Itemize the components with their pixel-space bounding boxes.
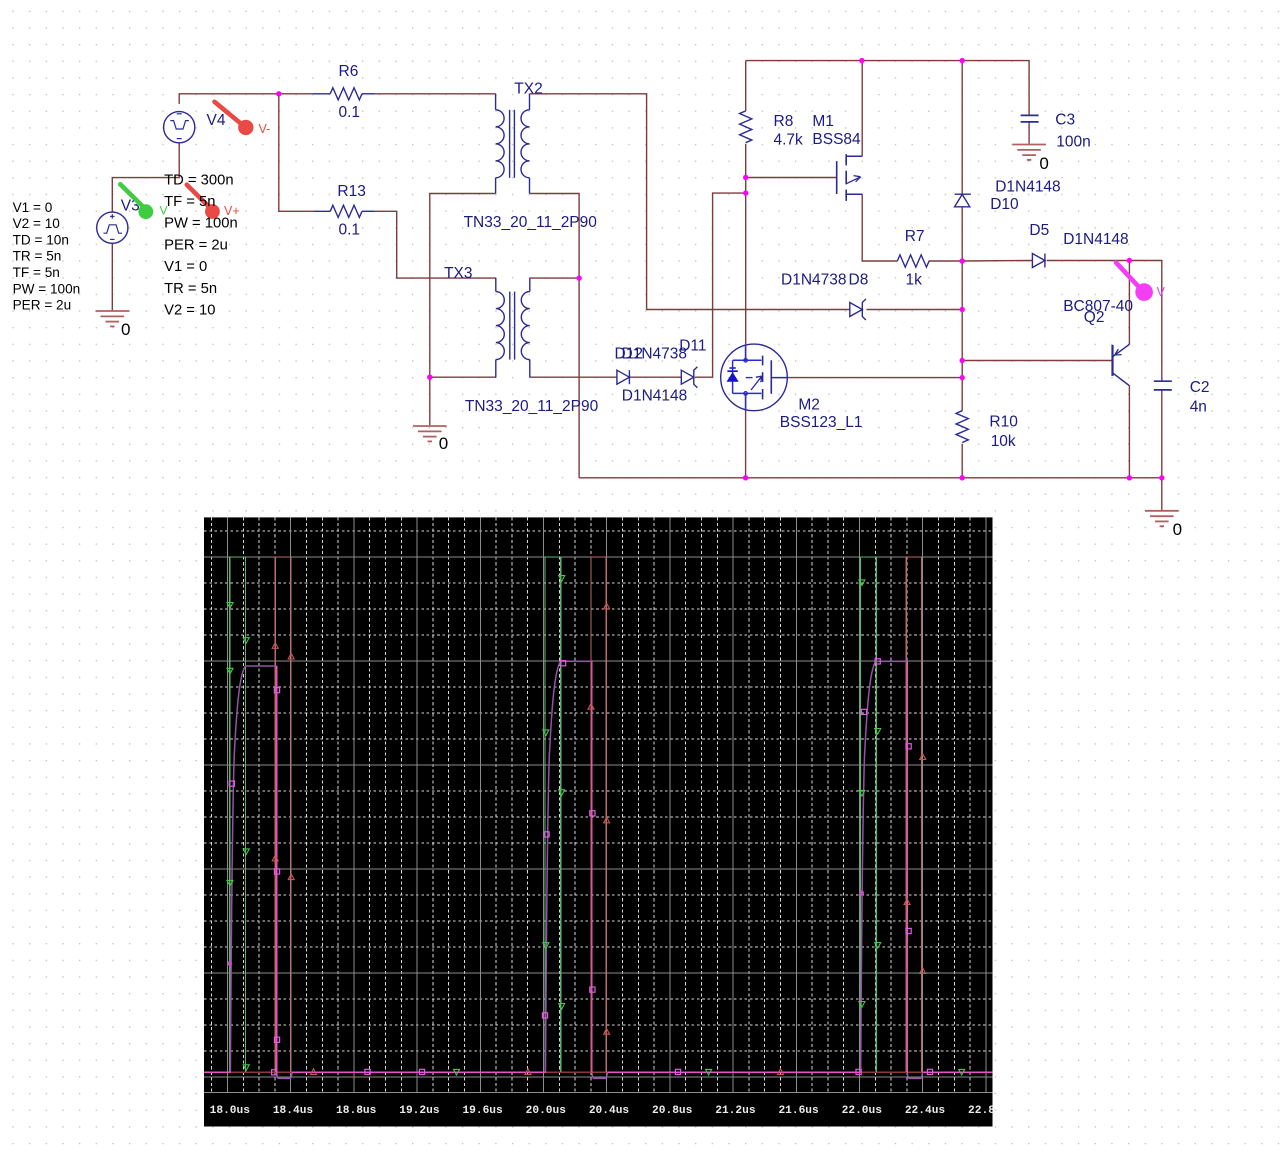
- svg-text:20.4us: 20.4us: [589, 1105, 630, 1117]
- trace V(out) magenta baseline segments: [204, 1071, 230, 1073]
- svg-text:D1N4148: D1N4148: [1063, 231, 1129, 248]
- wire: Q2 emitter up to node: [1128, 261, 1130, 345]
- svg-text:V1 = 0: V1 = 0: [164, 259, 207, 275]
- wire: bottom rail: [579, 477, 1162, 479]
- wire: V3 to ground: [111, 243, 113, 310]
- wire: R10 bottom to rail: [961, 444, 963, 478]
- svg-text:R8: R8: [774, 113, 794, 130]
- wire: M1 drain down to R7: [862, 194, 897, 261]
- probe V+ (red): [187, 185, 208, 206]
- M2 body diode: [727, 373, 737, 381]
- svg-text:100n: 100n: [1056, 133, 1090, 150]
- wire: R8 vertical leads: [745, 61, 747, 111]
- wire: M1 source up to rail: [861, 61, 863, 157]
- svg-text:PER = 2u: PER = 2u: [13, 298, 72, 313]
- plot major grid: [204, 517, 993, 1092]
- svg-text:C2: C2: [1190, 379, 1210, 396]
- svg-text:V-: V-: [259, 122, 271, 136]
- svg-text:D10: D10: [990, 196, 1019, 213]
- svg-text:D8: D8: [849, 271, 869, 288]
- M2 channel and gate: [762, 356, 764, 366]
- svg-text:20.0us: 20.0us: [526, 1105, 567, 1117]
- junction nodes: [276, 91, 281, 96]
- wire: D10 anode down through nodes to R10: [961, 207, 963, 411]
- svg-text:Q2: Q2: [1084, 309, 1105, 326]
- diode D12 D1N4148: [617, 370, 630, 384]
- svg-text:0: 0: [439, 434, 448, 453]
- ground 0 under V3: [96, 310, 130, 312]
- ground 0 under C3: [1012, 144, 1046, 146]
- capacitor C3: [1021, 114, 1039, 116]
- wire: D12 cathode to D11 anode: [629, 376, 681, 378]
- svg-text:0.1: 0.1: [339, 104, 361, 121]
- svg-text:V4: V4: [207, 112, 226, 129]
- wire: junction down to R13: [279, 94, 314, 212]
- mosfet M2 BSS123_L1: [721, 344, 788, 411]
- zener diode D8: [850, 303, 863, 317]
- wire: junction to R6: [279, 93, 313, 95]
- diode D10 vertical: [955, 193, 971, 195]
- wire: TX3 right pin to vertical junction: [530, 277, 579, 279]
- trace V(V4) red pulses: [275, 557, 291, 1072]
- voltage source V3: [97, 212, 128, 243]
- svg-text:21.2us: 21.2us: [715, 1105, 756, 1117]
- svg-text:TN33_20_11_2P90: TN33_20_11_2P90: [465, 398, 599, 415]
- transformer TX2: [495, 94, 497, 110]
- svg-text:D11: D11: [679, 337, 706, 354]
- svg-text:20.8us: 20.8us: [652, 1105, 693, 1117]
- svg-text:18.8us: 18.8us: [336, 1105, 377, 1117]
- wire: node to D5 anode: [962, 260, 1032, 263]
- ground 0 bottom right: [1145, 510, 1179, 512]
- svg-text:19.2us: 19.2us: [399, 1105, 440, 1117]
- resistor R6: [313, 93, 331, 95]
- svg-text:C3: C3: [1055, 112, 1075, 129]
- transformer TX3: [495, 278, 497, 292]
- plot minor grid vertical: [212, 517, 970, 1092]
- svg-text:1k: 1k: [906, 271, 923, 288]
- svg-text:V1 = 0: V1 = 0: [13, 200, 53, 215]
- svg-text:V: V: [1157, 285, 1166, 299]
- svg-text:0.1: 0.1: [339, 222, 361, 239]
- wire: TX2 bottom-right long vertical to bottom rail: [530, 194, 580, 478]
- svg-text:D1N4738: D1N4738: [781, 271, 847, 288]
- svg-text:10k: 10k: [991, 433, 1016, 450]
- svg-text:V2 = 10: V2 = 10: [13, 216, 61, 231]
- svg-text:0: 0: [1039, 154, 1048, 173]
- svg-text:R10: R10: [989, 414, 1018, 431]
- svg-text:R7: R7: [905, 228, 925, 245]
- wire: R13 to TX3 left pin: [375, 211, 496, 278]
- svg-text:D1N4148: D1N4148: [622, 387, 688, 404]
- resistor R7: [897, 255, 929, 267]
- svg-text:PW = 100n: PW = 100n: [13, 281, 81, 296]
- resistor R8: [740, 111, 752, 143]
- svg-text:TX3: TX3: [444, 265, 472, 282]
- wire: TX2 right pin to top rail right: [530, 94, 850, 310]
- svg-text:M1: M1: [812, 113, 834, 130]
- svg-text:BSS123_L1: BSS123_L1: [780, 414, 863, 431]
- wire: V4 top to junction: [179, 94, 279, 104]
- transistor Q2 BC807-40: [1111, 345, 1113, 376]
- trace V(V3) green pulses: [230, 557, 246, 1072]
- svg-text:TD = 300n: TD = 300n: [164, 172, 234, 188]
- trace V(out) magenta fall edge: [276, 666, 278, 1073]
- capacitor C2: [1154, 380, 1172, 382]
- wire: TX3 bottom-right to diode D12: [530, 376, 617, 378]
- svg-text:M2: M2: [798, 397, 820, 414]
- svg-text:TR = 5n: TR = 5n: [13, 249, 62, 264]
- wire: TX2 bottom-left down to ground node: [430, 194, 496, 426]
- wire: R6 to TX2 left pin: [375, 93, 496, 95]
- trace V4 baseline (dark red): [204, 1071, 993, 1073]
- svg-text:18.4us: 18.4us: [273, 1105, 314, 1117]
- wire: M2 drain vertical: [745, 345, 747, 360]
- probe V (green) on V3: [120, 184, 142, 205]
- svg-text:TF = 5n: TF = 5n: [13, 265, 60, 280]
- voltage source V4: [164, 112, 195, 143]
- ground 0 under TX windings: [413, 425, 447, 427]
- svg-text:22.0us: 22.0us: [842, 1105, 883, 1117]
- wire: D10 vertical from rail: [961, 61, 963, 195]
- wire: Q2 collector down to rail: [1128, 386, 1130, 478]
- zener diode D11: [681, 370, 694, 384]
- wire: node to Q2 base: [962, 360, 1112, 362]
- svg-text:4.7k: 4.7k: [774, 132, 804, 149]
- svg-text:4n: 4n: [1190, 399, 1207, 416]
- diode D5: [1032, 254, 1045, 268]
- wire: TX3 bottom-left to ground node: [430, 376, 496, 378]
- svg-text:21.6us: 21.6us: [778, 1105, 819, 1117]
- wire: M2 source down to rail: [745, 393, 747, 477]
- svg-text:0: 0: [121, 320, 130, 339]
- wire: M2 gate to node column: [788, 377, 963, 379]
- svg-text:0: 0: [1173, 520, 1182, 539]
- wire: rail to bottom-right ground: [1161, 478, 1163, 510]
- wire: D5 cathode to C2 top: [1047, 261, 1162, 382]
- svg-text:BSS84: BSS84: [812, 131, 861, 148]
- wire: D11 cathode up to M1 gate node: [695, 193, 746, 377]
- svg-text:PW = 100n: PW = 100n: [164, 216, 238, 232]
- probe V (magenta): [1116, 263, 1138, 287]
- resistor R13: [314, 210, 330, 212]
- trace V(out) magenta fall edge: [591, 661, 593, 1073]
- wire: top power rail: [746, 61, 1029, 115]
- wire: D8 cathode to node: [867, 309, 963, 311]
- svg-text:TN33_20_11_2P90: TN33_20_11_2P90: [464, 214, 598, 231]
- probe plot window: [204, 517, 993, 1126]
- resistor R10: [956, 411, 968, 443]
- wire: C2 bottom to rail: [1161, 390, 1163, 478]
- wire: R7 to node: [929, 260, 962, 262]
- trace V(out) violet rise and flat top: [230, 666, 276, 1072]
- trace V(out) violet undershoot dip: [592, 1072, 607, 1078]
- trace V(out) violet undershoot dip: [907, 1072, 922, 1078]
- probe V- (red) on V4: [215, 102, 243, 125]
- svg-text:22.4us: 22.4us: [905, 1105, 946, 1117]
- svg-text:R13: R13: [337, 183, 365, 200]
- trace V(out) magenta fall edge: [906, 661, 908, 1073]
- wire: gate node to M1 gate: [746, 177, 837, 179]
- plot minor grid horizontal: [204, 531, 993, 1051]
- wire: C3 bottom stub: [1028, 122, 1030, 144]
- svg-text:D5: D5: [1029, 222, 1049, 239]
- svg-text:TD = 10n: TD = 10n: [13, 232, 69, 247]
- svg-text:TR = 5n: TR = 5n: [164, 281, 217, 297]
- mosfet M1 BSS84: [836, 161, 838, 194]
- svg-text:R6: R6: [339, 63, 359, 80]
- svg-text:V2 = 10: V2 = 10: [164, 303, 215, 319]
- trace V(out) violet undershoot dip: [277, 1072, 292, 1078]
- svg-text:D1N4148: D1N4148: [995, 179, 1060, 196]
- svg-text:D1N4738: D1N4738: [622, 346, 688, 363]
- svg-text:TX2: TX2: [514, 81, 542, 98]
- svg-text:PER = 2u: PER = 2u: [164, 237, 228, 253]
- trace markers: [227, 603, 233, 609]
- svg-text:18.0us: 18.0us: [210, 1105, 251, 1117]
- wire: V3 plus to V4 minus: [112, 143, 179, 213]
- svg-text:19.6us: 19.6us: [462, 1105, 503, 1117]
- svg-text:TF = 5n: TF = 5n: [164, 194, 215, 210]
